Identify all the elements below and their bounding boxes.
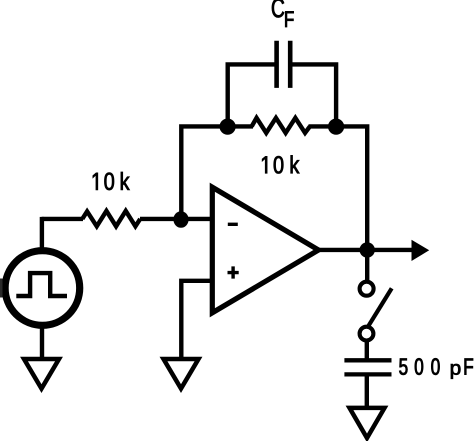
left edge artifact mark: [0, 279, 3, 298]
node feedback right dot: [328, 119, 344, 135]
op-amp U1 triangle: [212, 187, 318, 313]
op-amp plus sign: [228, 266, 239, 278]
capacitor 500pF top plate: [344, 358, 391, 362]
label 10k input: [93, 172, 130, 190]
wire switch to capacitor: [365, 342, 369, 359]
voltage source pulse generator circle: [5, 251, 80, 326]
wire feedback vertical left + top to resistor: [181, 126, 253, 221]
wire source bottom vertical: [40, 324, 44, 359]
capacitor CF left plate: [274, 41, 279, 88]
capacitor 500pF bottom plate: [344, 372, 391, 376]
wire feedback horizontal right + vertical down to output: [309, 126, 368, 250]
ground below op-amp: [164, 359, 199, 389]
wire input horizontal left: [42, 217, 83, 221]
pulse waveform symbol: [16, 273, 67, 296]
label 10k feedback: [262, 155, 299, 173]
wire CF branch left: [228, 64, 277, 128]
node feedback left dot: [220, 119, 236, 135]
ground below source: [24, 359, 59, 389]
wire output down to switch: [365, 250, 369, 281]
label CF: [272, 0, 294, 27]
switch lever: [369, 288, 392, 326]
capacitor CF right plate: [288, 41, 293, 88]
wire CF branch right: [290, 64, 336, 128]
node output junction dot: [360, 242, 375, 257]
node inverting input junction dot: [173, 211, 188, 228]
output arrowhead: [412, 240, 430, 261]
wire output horizontal: [316, 248, 412, 252]
resistor R2 10k feedback: [252, 118, 310, 133]
switch bottom contact circle: [360, 327, 374, 341]
wire noninverting input to ground: [181, 281, 214, 359]
op-amp minus sign: [228, 223, 238, 226]
wire input horizontal right: [140, 217, 214, 221]
wire capacitor to ground: [365, 376, 369, 410]
resistor R1 10k input: [82, 211, 140, 226]
ground below capacitor: [350, 408, 385, 438]
wire source top vertical: [40, 217, 44, 252]
label 500 pF: [399, 358, 473, 378]
switch top contact circle: [360, 282, 374, 296]
